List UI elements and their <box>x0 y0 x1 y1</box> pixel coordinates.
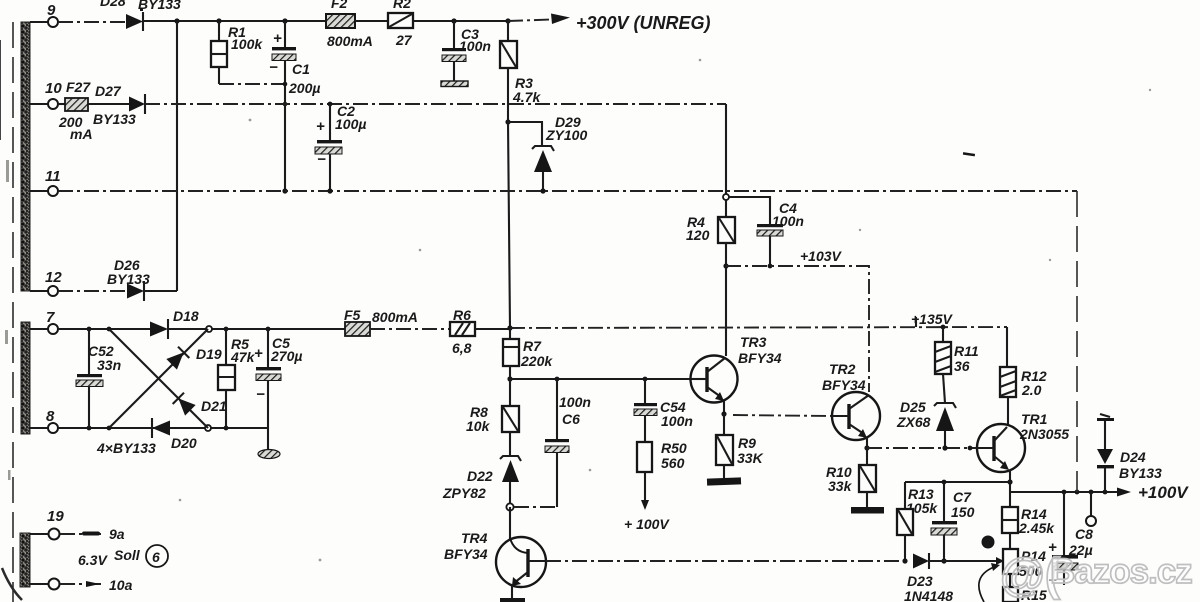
svg-text:+: + <box>316 118 325 135</box>
svg-text:+: + <box>254 345 263 362</box>
corner page mark <box>2 568 22 600</box>
svg-text:800mA: 800mA <box>327 33 373 49</box>
svg-text:ZPY82: ZPY82 <box>442 485 486 501</box>
svg-text:D25: D25 <box>900 399 926 415</box>
node R3-D29 <box>505 119 510 124</box>
svg-text:mA: mA <box>70 126 93 142</box>
node top-C3 <box>451 18 456 23</box>
svg-text:7: 7 <box>985 538 991 549</box>
chassis ground stub below C5 <box>267 428 269 450</box>
svg-text:D18: D18 <box>173 308 199 324</box>
transformer core bar segment 3 <box>21 322 30 434</box>
node TR1 base <box>968 446 973 451</box>
svg-text:19: 19 <box>47 508 64 525</box>
svg-text:Soll: Soll <box>114 547 141 563</box>
+100V down arrow under R50 <box>641 500 649 510</box>
svg-text:C7: C7 <box>953 489 972 505</box>
svg-text:220k: 220k <box>520 353 553 369</box>
svg-text:100n: 100n <box>559 394 591 410</box>
node TR2 emitter <box>864 445 869 450</box>
svg-text:6.3V: 6.3V <box>78 552 108 568</box>
ground below R10 <box>851 507 884 514</box>
svg-text:200µ: 200µ <box>288 80 320 96</box>
wire terminal11 rail <box>58 190 1077 192</box>
svg-text:560: 560 <box>661 455 685 471</box>
svg-text:F2: F2 <box>331 0 348 11</box>
+100V output rail <box>1010 491 1117 493</box>
svg-text:BFY34: BFY34 <box>738 350 782 366</box>
svg-text:D24: D24 <box>1120 449 1146 465</box>
wire bridge vertical x177 <box>176 21 178 291</box>
svg-text:2.45k: 2.45k <box>1018 520 1055 536</box>
+300V (UNREG) arrow and label <box>508 20 552 22</box>
svg-text:BFY34: BFY34 <box>822 377 866 393</box>
node top-R1 <box>216 18 221 23</box>
curved adjust arrow <box>979 567 994 602</box>
svg-text:100n: 100n <box>459 38 491 54</box>
svg-text:−: − <box>269 59 278 76</box>
svg-text:TR4: TR4 <box>461 530 488 546</box>
svg-text:+: + <box>273 30 282 47</box>
svg-text:11: 11 <box>45 168 61 185</box>
svg-text:Bazos.cz: Bazos.cz <box>1050 552 1192 591</box>
svg-text:+100V: +100V <box>1138 483 1189 502</box>
svg-text:150: 150 <box>951 504 975 520</box>
terminal 10a <box>30 583 48 585</box>
svg-text:F27: F27 <box>66 79 91 95</box>
output terminal circle <box>1090 492 1092 516</box>
bridge diagonal wire B <box>109 329 208 428</box>
svg-text:100µ: 100µ <box>335 116 366 132</box>
svg-text:R11: R11 <box>954 343 979 359</box>
wire base TR3 <box>510 378 692 380</box>
svg-text:10a: 10a <box>109 577 133 593</box>
svg-text:100k: 100k <box>231 36 263 52</box>
node junction circle TR4 base <box>506 503 513 510</box>
svg-text:33k: 33k <box>828 478 853 494</box>
svg-text:BY133: BY133 <box>138 0 181 12</box>
bridge diagonal wire A <box>109 329 208 428</box>
wire top rail left <box>58 21 126 23</box>
wire TR4 collector feedback <box>546 560 905 562</box>
svg-text:C6: C6 <box>562 411 580 427</box>
svg-text:12: 12 <box>45 269 62 286</box>
wire top rail <box>143 20 326 22</box>
svg-text:R2: R2 <box>393 0 411 11</box>
ground below R9 <box>707 477 741 485</box>
wire node 482 to R13/C7 <box>905 481 1010 483</box>
svg-text:6,8: 6,8 <box>452 340 472 356</box>
wire terminal10 rail <box>145 103 726 105</box>
svg-text:BY133: BY133 <box>93 111 136 127</box>
svg-text:R6: R6 <box>453 307 471 323</box>
svg-text:+103V: +103V <box>800 248 843 264</box>
speck marks <box>963 152 975 156</box>
svg-text:−: − <box>256 386 265 403</box>
ground below C3 <box>441 81 468 87</box>
wire +135V rail <box>475 328 510 330</box>
node top-177 <box>174 18 179 23</box>
svg-text:D21: D21 <box>201 398 227 414</box>
svg-text:1N4148: 1N4148 <box>904 588 953 602</box>
wire R1 bottom tee <box>219 83 285 85</box>
svg-text:D28: D28 <box>100 0 126 9</box>
capacitor C1 200u <box>282 18 287 23</box>
node R7 bottom <box>507 376 512 381</box>
wire bridge bottom <box>58 427 268 429</box>
svg-text:R7: R7 <box>523 338 542 354</box>
wire to P14 wiper arrow <box>929 560 996 562</box>
wire TR2 emitter node to TR1 base <box>867 447 977 449</box>
svg-text:10: 10 <box>45 80 62 97</box>
wire 9a <box>60 533 104 535</box>
ground below TR4 <box>500 598 525 602</box>
svg-text:+ 100V: + 100V <box>624 516 670 532</box>
node TR1 emitter <box>1007 479 1012 484</box>
svg-text:+300V (UNREG): +300V (UNREG) <box>576 13 711 33</box>
scan noise specks <box>5 59 1151 562</box>
svg-text:R50: R50 <box>661 440 687 456</box>
svg-text:36: 36 <box>954 358 970 374</box>
svg-text:D20: D20 <box>171 435 197 451</box>
svg-text:BFY34: BFY34 <box>444 546 488 562</box>
svg-text:6: 6 <box>152 549 160 565</box>
node TR3 emitter <box>721 411 726 416</box>
wire TR3 emitter to TR2 base <box>733 415 832 416</box>
wire R3 chain down <box>508 122 510 328</box>
svg-text:ZX68: ZX68 <box>896 414 931 430</box>
svg-text:R9: R9 <box>738 435 756 451</box>
svg-text:D22: D22 <box>467 468 493 484</box>
svg-text:ZY100: ZY100 <box>545 127 587 143</box>
svg-text:BY133: BY133 <box>1119 465 1162 481</box>
svg-text:4.7k: 4.7k <box>512 89 541 105</box>
svg-text:C1: C1 <box>292 61 310 77</box>
svg-text:9a: 9a <box>109 526 125 542</box>
svg-text:10k: 10k <box>466 418 491 434</box>
svg-text:47k: 47k <box>230 349 256 365</box>
transformer core bar segment 1 <box>21 22 30 291</box>
circled 6 <box>146 545 168 567</box>
svg-text:TR1: TR1 <box>1021 411 1048 427</box>
wire bridge top <box>58 328 150 330</box>
node R4 bottom <box>723 263 728 268</box>
svg-text:D23: D23 <box>907 573 933 589</box>
wire D22-C6 <box>514 506 557 508</box>
svg-text:C8: C8 <box>1075 526 1093 542</box>
svg-text:800mA: 800mA <box>372 309 418 325</box>
svg-text:D27: D27 <box>95 83 122 99</box>
svg-text:27: 27 <box>395 32 413 48</box>
transformer core bar segment 4 <box>20 533 30 587</box>
page edge line <box>12 22 14 602</box>
svg-text:+135V: +135V <box>911 311 954 327</box>
svg-text:D19: D19 <box>196 346 222 362</box>
svg-text:F5: F5 <box>344 307 361 323</box>
watermark <box>1000 548 1192 600</box>
wire <box>413 20 508 22</box>
svg-text:33n: 33n <box>97 357 121 373</box>
svg-text:100n: 100n <box>661 413 693 429</box>
svg-text:TR3: TR3 <box>740 334 767 350</box>
wire x726 down from terminal10 rail <box>725 104 727 217</box>
svg-text:270µ: 270µ <box>270 348 302 364</box>
svg-text:2.0: 2.0 <box>1021 382 1042 398</box>
wire <box>355 20 388 22</box>
svg-text:33K: 33K <box>737 450 764 466</box>
svg-text:4×BY133: 4×BY133 <box>96 440 156 456</box>
node top-R3 <box>505 18 510 23</box>
svg-text:2N3055: 2N3055 <box>1019 426 1069 442</box>
circled 7 mark <box>982 536 995 549</box>
svg-text:120: 120 <box>686 227 710 243</box>
wire long vertical from terminal11 rail <box>1076 191 1078 492</box>
svg-text:TR2: TR2 <box>829 361 856 377</box>
